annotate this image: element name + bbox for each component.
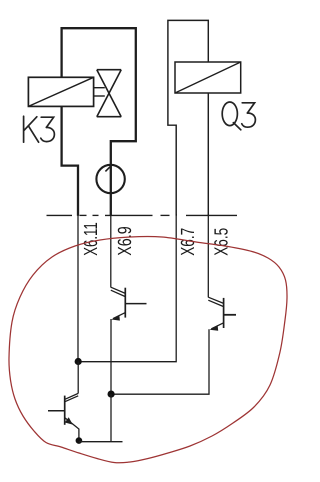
transistor Q(T2) on X6.5 wire [208, 297, 236, 331]
node A junction dot [75, 358, 82, 365]
indicator lamp 1 [96, 165, 124, 193]
svg-text:X6.9: X6.9 [115, 226, 136, 256]
wire T1 emitter down to node B [110, 319, 112, 394]
red freehand annotation ellipse [9, 237, 287, 463]
relay coil Q3 [175, 62, 241, 93]
wire T2 emitter down and left to node B [111, 329, 209, 394]
wire right loop Q3 branch [168, 20, 208, 215]
svg-text:X6.11: X6.11 [81, 222, 102, 256]
label Q3 [222, 102, 255, 130]
wire X6.9 lower [110, 214, 112, 287]
terminal strip dash-dot line [47, 214, 238, 216]
transistor Q(T3) mirrored [48, 393, 79, 438]
node C junction dot at T3 emitter [76, 437, 83, 444]
wire X6.5 lower [207, 214, 209, 297]
wire X6.11 lower [77, 214, 79, 361]
wire left loop K3 branch (thick outline loop) [62, 28, 136, 216]
transistor Q(T1) on X6.9 wire [111, 287, 147, 320]
wire node A down to T3 [77, 362, 79, 394]
wire bottom rail [79, 441, 123, 443]
wire X6.9 to bottom rail [110, 394, 112, 442]
label K3 [24, 116, 55, 142]
relay coil K3 [28, 77, 93, 106]
svg-text:X6.5: X6.5 [212, 228, 233, 256]
mechanical link coil to valve [94, 87, 105, 89]
node B junction dot [108, 391, 115, 398]
valve symbol (hourglass) [97, 70, 121, 117]
wire X6.7 lower with corner to node A [78, 214, 176, 362]
